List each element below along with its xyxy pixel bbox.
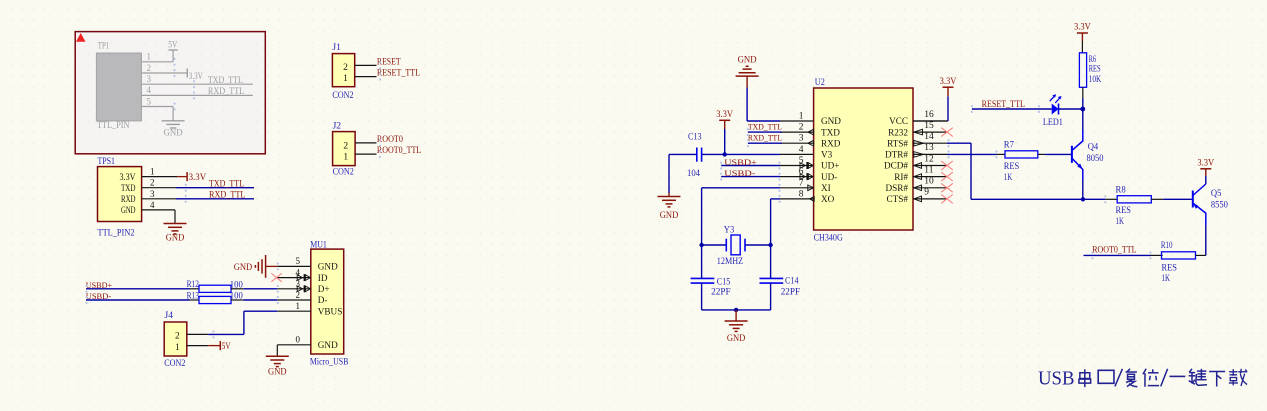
svg-text:DTR#: DTR#	[885, 150, 908, 160]
svg-text:TXD: TXD	[121, 183, 136, 193]
svg-text:Q4: Q4	[1088, 143, 1099, 153]
svg-text:DCD#: DCD#	[884, 161, 908, 171]
svg-text:R8: R8	[1116, 186, 1126, 196]
svg-text:XI: XI	[821, 183, 831, 193]
svg-text:1: 1	[343, 153, 348, 163]
svg-text:RES: RES	[1162, 263, 1177, 273]
svg-text:3: 3	[799, 134, 804, 144]
svg-text:12: 12	[924, 154, 934, 164]
svg-text:104: 104	[687, 169, 700, 179]
svg-text:8: 8	[799, 189, 804, 199]
svg-text:8050: 8050	[1087, 154, 1104, 164]
svg-text:RES: RES	[1004, 162, 1019, 172]
svg-text:3.3V: 3.3V	[716, 110, 733, 120]
svg-text:8550: 8550	[1211, 200, 1228, 210]
svg-text:DSR#: DSR#	[886, 183, 909, 193]
svg-text:22PF: 22PF	[781, 288, 801, 298]
svg-text:C14: C14	[785, 277, 799, 287]
svg-text:2: 2	[175, 332, 180, 342]
svg-text:10K: 10K	[1089, 75, 1102, 85]
svg-text:RES: RES	[1089, 65, 1101, 75]
svg-text:UD+: UD+	[821, 161, 839, 171]
svg-text:3: 3	[147, 75, 152, 85]
svg-text:9: 9	[924, 188, 929, 198]
svg-text:D-: D-	[318, 295, 328, 305]
svg-text:4: 4	[799, 145, 804, 155]
svg-text:RES: RES	[1116, 206, 1131, 216]
svg-text:1K: 1K	[1004, 173, 1013, 183]
svg-text:UD-: UD-	[821, 172, 837, 182]
svg-text:Q5: Q5	[1211, 189, 1222, 199]
svg-text:CON2: CON2	[164, 359, 185, 369]
svg-text:RXD: RXD	[121, 194, 136, 204]
svg-text:CTS#: CTS#	[887, 194, 909, 204]
svg-text:CON2: CON2	[333, 167, 354, 177]
svg-text:12MHZ: 12MHZ	[717, 257, 744, 267]
svg-text:0: 0	[296, 336, 301, 346]
svg-text:3.3V: 3.3V	[1197, 158, 1214, 168]
svg-text:RTS#: RTS#	[887, 138, 908, 148]
svg-text:RESET_TTL: RESET_TTL	[377, 68, 420, 78]
svg-text:J1: J1	[332, 43, 341, 53]
svg-text:100: 100	[230, 280, 243, 290]
svg-text:15: 15	[924, 121, 934, 131]
svg-text:LED1: LED1	[1043, 118, 1063, 128]
svg-text:1: 1	[147, 53, 152, 63]
svg-text:1K: 1K	[1116, 217, 1125, 227]
svg-text:4: 4	[296, 268, 301, 278]
svg-text:RXD_TTL: RXD_TTL	[209, 190, 246, 200]
svg-text:16: 16	[924, 110, 934, 120]
svg-text:3.3V: 3.3V	[940, 77, 957, 87]
svg-text:1: 1	[343, 74, 348, 84]
svg-text:2: 2	[343, 141, 348, 151]
svg-text:VCC: VCC	[889, 116, 908, 126]
svg-text:2: 2	[343, 63, 348, 73]
svg-text:7: 7	[799, 178, 804, 188]
svg-text:3.3V: 3.3V	[189, 173, 207, 183]
svg-text:ROOT0_TTL: ROOT0_TTL	[377, 146, 421, 156]
svg-text:2: 2	[147, 64, 152, 74]
svg-text:1: 1	[296, 302, 301, 312]
svg-text:GND: GND	[234, 263, 253, 273]
svg-text:GND: GND	[166, 233, 185, 243]
svg-text:TPS1: TPS1	[98, 157, 116, 167]
svg-text:V3: V3	[821, 150, 833, 160]
svg-text:XO: XO	[821, 194, 835, 204]
svg-text:100: 100	[230, 291, 243, 301]
svg-text:1K: 1K	[1162, 274, 1171, 284]
svg-text:ROOT0_TTL: ROOT0_TTL	[1092, 245, 1136, 255]
svg-text:22PF: 22PF	[711, 288, 731, 298]
svg-text:11: 11	[924, 165, 933, 175]
svg-text:C13: C13	[688, 133, 702, 143]
svg-text:D+: D+	[318, 284, 330, 294]
svg-text:USBD-: USBD-	[724, 168, 755, 178]
svg-text:GND: GND	[318, 262, 338, 272]
svg-text:RXD_TTL: RXD_TTL	[748, 133, 782, 143]
svg-text:1: 1	[799, 112, 804, 122]
svg-text:1: 1	[175, 343, 180, 353]
svg-text:CH340G: CH340G	[814, 234, 843, 244]
svg-text:VBUS: VBUS	[318, 306, 343, 316]
svg-text:GND: GND	[738, 56, 757, 66]
svg-text:GND: GND	[318, 340, 338, 350]
svg-text:TXD_TTL: TXD_TTL	[208, 76, 243, 86]
svg-text:RXD: RXD	[821, 138, 841, 148]
svg-text:Y3: Y3	[724, 225, 735, 235]
svg-text:GND: GND	[727, 334, 746, 344]
svg-text:GND: GND	[164, 128, 183, 138]
svg-text:Micro_USB: Micro_USB	[310, 357, 349, 367]
svg-text:2: 2	[799, 123, 804, 133]
svg-text:TTL_PIN: TTL_PIN	[97, 121, 129, 131]
svg-text:3.3V: 3.3V	[189, 72, 203, 82]
svg-text:RXD_TTL: RXD_TTL	[208, 87, 245, 97]
svg-text:10: 10	[924, 177, 934, 187]
svg-text:TXD_TTL: TXD_TTL	[209, 179, 244, 189]
svg-text:GND: GND	[821, 116, 841, 126]
svg-text:R10: R10	[1161, 241, 1173, 251]
svg-text:3: 3	[296, 280, 301, 290]
svg-text:J2: J2	[333, 121, 342, 131]
svg-text:USBD+: USBD+	[724, 157, 757, 167]
svg-text:TXD_TTL: TXD_TTL	[748, 122, 782, 132]
svg-text:RI#: RI#	[894, 172, 908, 182]
svg-text:R232: R232	[888, 127, 908, 137]
svg-text:14: 14	[924, 132, 934, 142]
svg-text:5V: 5V	[168, 40, 177, 50]
svg-text:TXD: TXD	[821, 127, 840, 137]
svg-text:CON2: CON2	[332, 91, 353, 101]
svg-text:GND: GND	[268, 368, 287, 378]
svg-text:J4: J4	[165, 311, 174, 321]
svg-text:5: 5	[296, 257, 301, 267]
svg-text:R7: R7	[1004, 141, 1014, 151]
svg-text:TP1: TP1	[98, 41, 110, 51]
svg-text:3.3V: 3.3V	[1074, 23, 1091, 33]
svg-text:5: 5	[147, 97, 152, 107]
svg-text:GND: GND	[660, 211, 679, 221]
svg-text:2: 2	[296, 291, 301, 301]
svg-text:3.3V: 3.3V	[120, 172, 136, 182]
svg-text:TTL_PIN2: TTL_PIN2	[98, 229, 135, 239]
svg-text:13: 13	[924, 143, 934, 153]
svg-text:GND: GND	[121, 205, 136, 215]
svg-text:USB: USB	[1038, 369, 1075, 390]
svg-text:4: 4	[147, 86, 152, 96]
svg-text:ID: ID	[318, 273, 328, 283]
svg-text:5V: 5V	[222, 342, 231, 352]
svg-text:U2: U2	[815, 78, 825, 88]
svg-text:C15: C15	[717, 278, 731, 288]
